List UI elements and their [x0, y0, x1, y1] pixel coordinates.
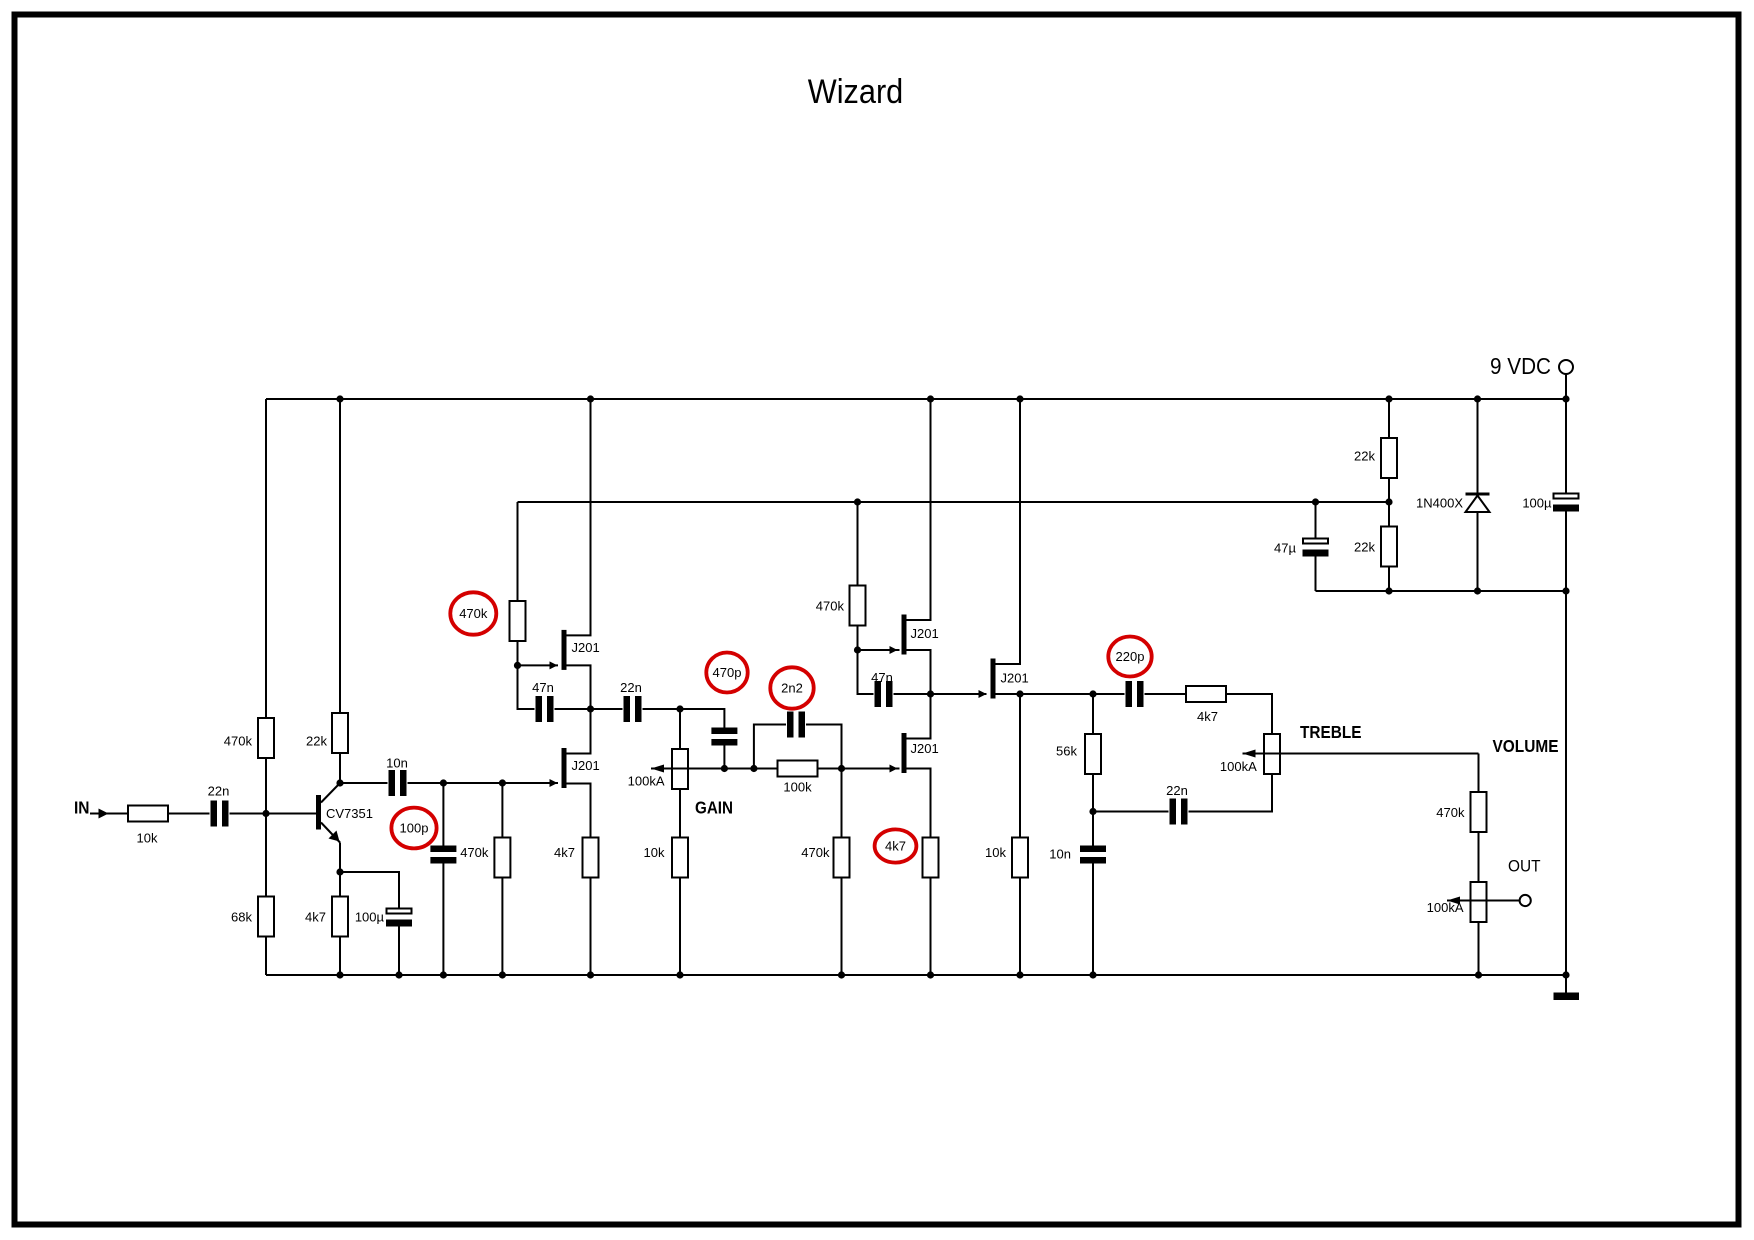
wire 2n2 branch left	[754, 725, 786, 769]
wire C 22n to base node and Q1 base	[230, 813, 317, 815]
wire R 470k to J1 gate node	[517, 641, 519, 665]
capacitor 100u (supply filter, electrolytic)	[1553, 494, 1579, 512]
node ground rail / 100p	[440, 971, 447, 978]
svg-text:22n: 22n	[620, 680, 642, 695]
capacitor 2n2 (parallel with 100k, circled)	[787, 712, 805, 738]
wire power ground drop	[1565, 591, 1567, 975]
wire C 22n to treble bottom node	[1093, 811, 1169, 813]
node power lower rail / diode	[1474, 587, 1481, 594]
resistor 10k (gain pot lower leg)	[672, 838, 688, 878]
svg-text:470k: 470k	[801, 845, 830, 860]
svg-text:4k7: 4k7	[885, 839, 906, 854]
transistor J1 J201 (upper JFET)	[562, 630, 567, 670]
wire bias rail	[518, 501, 1390, 503]
svg-text:10n: 10n	[386, 756, 408, 771]
transistor J3 J201 (upper JFET)	[902, 615, 907, 655]
capacitor 22n (coupling to gain pot)	[624, 696, 642, 722]
wire gate node down to C 47n	[858, 650, 874, 694]
node power lower rail / 22k	[1385, 587, 1392, 594]
wire R 22k to power lower rail	[1388, 567, 1390, 592]
node 470k tap	[499, 779, 506, 786]
capacitor 100u (emitter bypass, electrolytic)	[386, 909, 412, 927]
svg-text:470p: 470p	[713, 665, 742, 680]
terminal 9 VDC	[1559, 360, 1573, 374]
svg-text:47n: 47n	[871, 670, 893, 685]
node ground rail / gain 10k	[676, 971, 683, 978]
svg-text:GAIN: GAIN	[695, 797, 733, 817]
wire J4 drain to C output node	[907, 694, 931, 739]
node bias rail / stage C	[854, 498, 861, 505]
wire J2 drain to B output node	[567, 709, 591, 754]
node ground rail / J5 10k	[1016, 971, 1023, 978]
transistor J4 J201 (lower JFET)	[902, 733, 907, 773]
svg-text:68k: 68k	[231, 910, 252, 925]
wire node to R 470k gate leak C	[841, 769, 843, 838]
node wiper / 470p	[721, 765, 728, 772]
svg-text:100µ: 100µ	[1522, 496, 1552, 511]
arrow gain pot wiper	[651, 765, 664, 773]
wire D1 anode to power lower rail	[1477, 512, 1479, 591]
svg-text:470k: 470k	[816, 599, 845, 614]
wire gate node down to C 47n	[518, 665, 535, 709]
node base of Q1 / bias divider	[262, 810, 269, 817]
svg-text:22k: 22k	[1354, 449, 1375, 464]
capacitor 10n (treble shunt)	[1080, 846, 1106, 864]
node ground rail / 470k C	[838, 971, 845, 978]
wire C 470p to wiper line	[723, 746, 725, 769]
wire gain node to C 470p	[680, 709, 724, 728]
resistor 22k (bias divider lower)	[1381, 527, 1397, 567]
node top rail / 9VDC	[1562, 395, 1569, 402]
wire R 470k to base node	[265, 758, 267, 814]
svg-text:470k: 470k	[460, 845, 489, 860]
svg-text:4k7: 4k7	[1197, 709, 1218, 724]
highlight circle 470p	[706, 653, 747, 693]
potentiometer GAIN 100kA (body)	[672, 749, 688, 789]
svg-text:100kA: 100kA	[628, 773, 665, 788]
svg-text:220p: 220p	[1116, 649, 1145, 664]
node treble feed / 56k	[1089, 690, 1096, 697]
svg-text:47n: 47n	[532, 680, 554, 695]
wire ground bottom rail	[266, 974, 1566, 976]
resistor 22k (collector load)	[332, 713, 348, 753]
node bias rail / 47u	[1312, 498, 1319, 505]
node bias divider centre	[1385, 498, 1392, 505]
wire gate node to J3 gate	[858, 649, 900, 651]
arrow treble pot wiper	[1243, 750, 1256, 758]
node 100k / 470k / 2n2	[838, 765, 845, 772]
highlight circle 470k	[450, 592, 496, 634]
capacitor 47u (bias decoupling, electrolytic)	[1303, 539, 1329, 557]
svg-text:470k: 470k	[459, 606, 488, 621]
wire R 470k to volume pot	[1478, 832, 1480, 882]
wire R 22k to bias node	[1388, 478, 1390, 502]
wire gain wiper line	[651, 768, 778, 770]
svg-text:J201: J201	[911, 626, 939, 641]
node top rail / J3 drain	[927, 395, 934, 402]
arrow into J4 gate	[890, 765, 898, 773]
node top rail / 22k	[1385, 395, 1392, 402]
svg-text:J201: J201	[911, 741, 939, 756]
svg-text:4k7: 4k7	[305, 910, 326, 925]
wire C output to J5 gate	[931, 693, 987, 695]
wire 100k to J4 gate	[818, 768, 900, 770]
wire top rail to R 470k upper bias	[265, 399, 267, 718]
resistor 470k (upper bias divider)	[258, 718, 274, 758]
resistor 100k (series, circled parallel cap)	[778, 761, 818, 777]
node stage B output	[587, 705, 594, 712]
wire C 10n to J2 gate	[408, 782, 559, 784]
node collector of Q1	[336, 779, 343, 786]
wire R 4k7 to ground rail	[930, 878, 932, 976]
highlight circle 100p	[391, 808, 436, 849]
svg-text:J201: J201	[572, 640, 600, 655]
svg-text:470k: 470k	[1436, 805, 1465, 820]
potentiometer VOLUME 100kA (body)	[1471, 882, 1487, 922]
wire J1 source down to B output node	[567, 665, 591, 709]
node power lower rail / 100u	[1562, 587, 1569, 594]
node top rail / diode	[1474, 395, 1481, 402]
svg-text:22n: 22n	[1166, 783, 1188, 798]
wire C 100u to power lower rail	[1565, 512, 1567, 592]
svg-text:100p: 100p	[400, 821, 429, 836]
wire gain pot to R 10k	[679, 789, 681, 838]
node top rail / 22k	[336, 395, 343, 402]
arrow into J5 gate	[979, 690, 987, 698]
svg-text:4k7: 4k7	[554, 845, 575, 860]
resistor 22k (bias divider upper)	[1381, 438, 1397, 478]
arrow into J2 gate	[550, 779, 558, 787]
svg-text:1N400X: 1N400X	[1416, 496, 1463, 511]
wire 9VDC terminal to top rail	[1565, 374, 1567, 399]
wire J3 drain to top rail	[907, 399, 931, 620]
wire C 47n to C output node	[894, 693, 931, 695]
capacitor 100p (shunt to ground)	[430, 846, 456, 864]
svg-text:47µ: 47µ	[1274, 541, 1296, 556]
wire node to R 470k gate leak	[501, 783, 503, 838]
wire R 4k7 to ground rail	[590, 878, 592, 976]
svg-text:100kA: 100kA	[1220, 759, 1257, 774]
node treble bottom	[1089, 808, 1096, 815]
wire emitter node to R 4k7	[339, 872, 341, 897]
diode D1 1N400X (reverse protection)	[1466, 494, 1490, 512]
node top rail / J1 drain	[587, 395, 594, 402]
arrow input signal direction	[99, 809, 109, 819]
capacitor 22n (input coupling)	[211, 801, 229, 827]
wire J4 source to R 4k7	[907, 769, 931, 838]
resistor 4k7 (emitter)	[332, 897, 348, 937]
wire gate node to J1 gate	[518, 664, 559, 666]
wire R 56k to treble bottom node	[1092, 774, 1094, 812]
node J3 gate / 47n	[854, 646, 861, 653]
wire treble wiper down to R 470k	[1478, 754, 1480, 793]
svg-text:22n: 22n	[208, 784, 230, 799]
wire C 220p to R 4k7	[1145, 693, 1187, 695]
wire B output to C 22n	[591, 708, 623, 710]
wire treble pot bottom to C 22n	[1189, 774, 1273, 812]
wire C 47n to B output node	[555, 708, 591, 710]
resistor 470k (volume series)	[1471, 792, 1487, 832]
wire base node to R 68k	[265, 814, 267, 897]
node ground rail / 4k7	[336, 971, 343, 978]
highlight circle 220p	[1108, 637, 1151, 677]
svg-text:10k: 10k	[137, 831, 158, 846]
wire treble wiper to volume chain	[1243, 753, 1479, 755]
resistor 470k (J3 gate bias)	[850, 586, 866, 626]
capacitor 47n (bootstrap C)	[875, 681, 893, 707]
wire power section lower rail	[1316, 590, 1567, 592]
wire node to R 56k	[1092, 694, 1094, 734]
transistor J5 J201 (output follower)	[991, 659, 996, 699]
svg-text:2n2: 2n2	[781, 681, 803, 696]
svg-text:J201: J201	[1001, 671, 1029, 686]
node ground rail / 470k	[499, 971, 506, 978]
highlight circle 2n2	[770, 667, 813, 708]
node 100p tap	[440, 779, 447, 786]
resistor 4k7 (J4 source, circled)	[923, 838, 939, 878]
transistor J2 J201 (lower JFET)	[562, 748, 567, 788]
arrow into J1 gate	[550, 661, 558, 669]
capacitor 22n (treble)	[1170, 799, 1188, 825]
capacitor 220p (circled)	[1126, 681, 1144, 707]
svg-text:J201: J201	[572, 758, 600, 773]
wire to ground symbol	[1565, 975, 1567, 993]
wire bias rail to R 470k stage C	[857, 502, 859, 586]
terminal OUT	[1520, 895, 1531, 906]
wire +9V top rail	[266, 398, 1566, 400]
ground	[1554, 993, 1580, 1001]
wire R 470k to ground rail	[501, 878, 503, 976]
wire emitter node to C 100u	[340, 872, 399, 909]
resistor 10k (J5 source)	[1012, 838, 1028, 878]
wire top rail to D1 cathode	[1477, 399, 1479, 493]
svg-text:VOLUME: VOLUME	[1493, 736, 1559, 756]
wire top rail to R 22k collector load	[339, 399, 341, 713]
node ground rail / power drop	[1562, 971, 1569, 978]
node ground rail / J2 4k7	[587, 971, 594, 978]
wire gain node to gain pot	[679, 709, 681, 749]
wire J2 source to R 4k7	[567, 784, 591, 838]
node J5 source / 10k	[1016, 690, 1023, 697]
node stage C output	[927, 690, 934, 697]
wire node to C 100p	[442, 783, 444, 846]
wire J5 source line to C 220p	[996, 693, 1125, 695]
wire R 4k7 to treble pot top	[1226, 694, 1272, 734]
wire C 22n to gain node	[643, 708, 681, 710]
wire R 4k7 to ground rail	[339, 937, 341, 976]
highlight circle 4k7	[875, 829, 917, 862]
potentiometer TREBLE 100kA (body)	[1264, 734, 1280, 774]
arrow into J3 gate	[890, 646, 898, 654]
wire emitter to emitter node	[339, 843, 341, 873]
node J1 gate / 47n	[514, 662, 521, 669]
svg-text:56k: 56k	[1056, 744, 1077, 759]
wire C 47u to power lower rail	[1315, 557, 1317, 592]
resistor 470k (J1 gate bias, circled)	[510, 601, 526, 641]
wire R 68k to ground rail	[265, 937, 267, 976]
transistor Q1 CV7351 (NPN)	[316, 783, 340, 843]
wire C 100u to ground rail	[398, 927, 400, 976]
wire R 10k to C 22n	[168, 813, 210, 815]
wire volume wiper to OUT terminal	[1447, 900, 1520, 902]
node ground rail / 100u	[395, 971, 402, 978]
wire bias node to R 22k lower	[1388, 502, 1390, 527]
wire top rail to C 100u	[1565, 399, 1567, 493]
svg-text:100µ: 100µ	[355, 910, 385, 925]
node emitter of Q1	[336, 868, 343, 875]
wire bias rail to R 470k bias feed	[517, 502, 519, 601]
wire J5 drain to top rail	[996, 399, 1021, 664]
wire volume pot to ground rail	[1478, 922, 1480, 975]
svg-text:10k: 10k	[985, 845, 1006, 860]
wire C 10n to ground rail	[1092, 864, 1094, 976]
capacitor 47n (bootstrap)	[536, 696, 554, 722]
node ground rail / volume pot	[1475, 971, 1482, 978]
node wiper / 2n2	[750, 765, 757, 772]
svg-text:470k: 470k	[224, 734, 253, 749]
resistor 4k7 (treble series)	[1186, 686, 1226, 702]
arrow volume pot wiper	[1447, 897, 1460, 905]
resistor 470k (J4 gate leak)	[834, 838, 850, 878]
svg-text:100k: 100k	[783, 780, 812, 795]
svg-text:TREBLE: TREBLE	[1300, 722, 1362, 742]
wire C 100p to ground rail	[442, 864, 444, 976]
node top rail / J5 drain	[1016, 395, 1023, 402]
node ground rail / J4 4k7	[927, 971, 934, 978]
wire R 470k to J3 gate node	[857, 626, 859, 651]
wire IN to R 10k	[90, 813, 128, 815]
wire R 10k to ground rail	[679, 878, 681, 976]
wire 2n2 branch right	[806, 725, 842, 769]
svg-text:10k: 10k	[644, 845, 665, 860]
wire R 10k to ground rail	[1019, 878, 1021, 976]
svg-text:22k: 22k	[306, 734, 327, 749]
capacitor 470p (treble bleed, circled)	[711, 728, 737, 746]
resistor 470k (J2 gate leak)	[494, 838, 510, 878]
svg-text:9 VDC: 9 VDC	[1490, 353, 1551, 379]
resistor 4k7 (J2 source)	[583, 838, 599, 878]
svg-text:OUT: OUT	[1508, 857, 1541, 876]
wire top rail to R 22k upper	[1388, 399, 1390, 438]
resistor 10k (input series)	[128, 806, 168, 822]
capacitor 10n (interstage coupling)	[389, 770, 407, 796]
node gain pot top	[676, 705, 683, 712]
resistor 56k (treble network)	[1085, 734, 1101, 774]
svg-text:10n: 10n	[1049, 847, 1071, 862]
wire R 22k to collector node	[339, 753, 341, 783]
wire source node to R 10k	[1019, 694, 1021, 838]
wire J3 source down to C output node	[907, 650, 931, 694]
wire collector to C 10n	[340, 782, 388, 784]
wire R 470k to ground rail	[841, 878, 843, 976]
wire J1 drain to top rail	[567, 399, 591, 635]
node ground rail / 10n	[1089, 971, 1096, 978]
resistor 68k (lower bias divider)	[258, 897, 274, 937]
svg-text:CV7351: CV7351	[326, 806, 373, 821]
wire treble bottom node to C 10n	[1092, 812, 1094, 846]
svg-text:22k: 22k	[1354, 540, 1375, 555]
wire bias rail to C 47u	[1315, 502, 1317, 539]
svg-text:IN: IN	[74, 797, 90, 817]
svg-text:Wizard: Wizard	[808, 73, 904, 111]
